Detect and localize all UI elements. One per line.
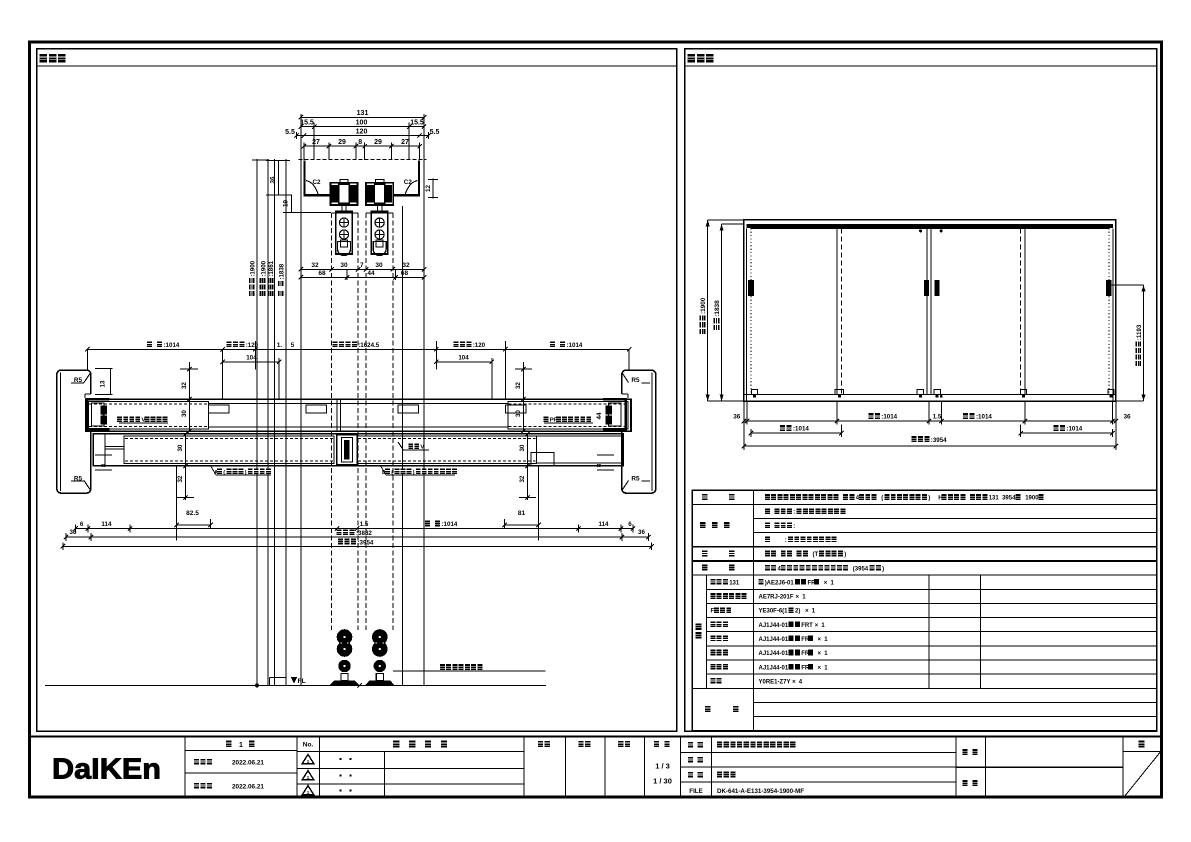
svg-text:1.: 1. [277, 342, 282, 349]
right plan dim stack 32/30 [523, 362, 525, 431]
floor guide roller cluster at x=379.8 [373, 630, 388, 645]
elevation handle door4 [1106, 280, 1112, 296]
elevation right jamb inner line [1112, 228, 1114, 401]
svg-text:15.5: 15.5 [410, 119, 424, 126]
dim 8 rotated at left jamb [101, 463, 108, 467]
svg-text:5.5: 5.5 [430, 129, 440, 136]
spec row keishiki label [702, 494, 707, 500]
svg-text:2022.06.21: 2022.06.21 [232, 760, 264, 767]
svg-text:6: 6 [628, 521, 632, 528]
elevation center meeting stiles [926, 228, 928, 394]
rear band inner face lines [209, 403, 508, 405]
rear band right hatched end cap [508, 402, 628, 429]
dai-1-han block header [185, 749, 297, 751]
elevation door top line [751, 227, 1109, 229]
rear band left hatched end cap [89, 402, 209, 429]
sakusei author column header [618, 741, 623, 747]
svg-text:81: 81 [518, 510, 526, 517]
elevation handle door1 [748, 280, 754, 296]
svg-text:1.5: 1.5 [360, 521, 369, 528]
spec hinban row 6: left door 3 [711, 650, 716, 656]
svg-text:131: 131 [729, 580, 740, 586]
spec hinban row 2: rail set [711, 593, 716, 599]
center coupler (tosaki meeting) [337, 435, 358, 465]
revision triangles and date dots [302, 754, 314, 763]
svg-text:27: 27 [312, 139, 320, 146]
svg-text:44: 44 [101, 412, 108, 419]
svg-text:3954: 3954 [1002, 496, 1016, 502]
flat rail label with leader [393, 670, 546, 672]
svg-text:): ) [844, 552, 846, 558]
dim row 32 30 7 30 32 under hangers [301, 268, 424, 270]
svg-text:32: 32 [402, 262, 410, 269]
hanger roller assembly at x=344.0 [340, 179, 348, 182]
dim row 120 with 5.5 sides [297, 135, 429, 137]
svg-text:32: 32 [177, 475, 184, 482]
svg-text::: : [793, 510, 795, 516]
plan bottom dim row C [76, 528, 633, 530]
front band right hatched door [357, 436, 536, 463]
dim 81 lower right [505, 524, 539, 526]
svg-text:×: × [824, 580, 828, 586]
left panel title separator [37, 65, 677, 67]
svg-text:×: × [818, 651, 822, 657]
svg-text:Y0RE1-Z7Y: Y0RE1-Z7Y [759, 679, 791, 685]
svg-text:(T: (T [813, 552, 819, 558]
fixed frame inner vertical (right) [401, 206, 403, 685]
zuin drafter label [962, 780, 967, 786]
dim 44 rotated at left jamb [101, 412, 108, 419]
elevation dim hikite height 1193 right [1143, 285, 1145, 401]
svg-text:2022.06.21: 2022.06.21 [232, 784, 264, 791]
svg-text:(3954: (3954 [853, 566, 869, 572]
right viewport panel (front elevation view) [685, 49, 1157, 732]
zumei value sanmenzu [717, 772, 722, 778]
svg-text:1: 1 [239, 742, 243, 749]
left plan dim stack 32/30 [189, 362, 191, 431]
svg-text:5.5: 5.5 [285, 129, 295, 136]
svg-text:7: 7 [360, 262, 364, 269]
svg-text::3954: :3954 [358, 539, 374, 546]
door 2 section dashed edges [365, 213, 367, 630]
svg-text:36: 36 [1123, 413, 1131, 420]
dim 12 right of rail [432, 179, 434, 199]
rail channel walls [303, 161, 305, 197]
spec shiage value row2 [765, 523, 770, 529]
elevation bottom center dots [920, 395, 922, 397]
floor dim end dot [255, 684, 258, 687]
kaitei-bi date row [194, 783, 199, 789]
floor line center slash tick [357, 683, 361, 687]
elevation panel divider door1 edge dashed [841, 228, 843, 394]
label tosaki-V with leader [408, 443, 413, 449]
label tsuri-PP tojiri cap (right) [544, 416, 549, 422]
svg-text::1014: :1014 [881, 414, 897, 421]
svg-text:36: 36 [270, 176, 277, 184]
elevation door bottom line [745, 393, 1116, 395]
svg-text:YE30F-6(1: YE30F-6(1 [759, 609, 789, 615]
kenmei project name label [962, 749, 967, 755]
svg-text:44: 44 [367, 270, 375, 277]
upper rail housing outline [299, 159, 427, 161]
svg-text:C2: C2 [404, 179, 413, 186]
dim 8 rotated at right jamb [596, 463, 603, 467]
svg-text:8: 8 [358, 139, 362, 146]
revision history header [393, 740, 399, 747]
hanger lower catch at x=344.0 [338, 242, 351, 256]
spec table horizontal lines [692, 503, 1156, 505]
rail corner bracket right with C2 label [405, 181, 417, 195]
svg-text:C2: C2 [313, 179, 322, 186]
spec table hinban extra dividers [928, 575, 930, 688]
elevation bottom dim row1 [744, 420, 1116, 422]
meisho value omoiyari kids series [717, 742, 722, 748]
dim 82.5 lower left [177, 524, 211, 526]
revision rows lines [297, 751, 524, 753]
elevation top screws [919, 230, 921, 232]
dim 44 rotated at right jamb [596, 412, 603, 419]
svg-text::1014: :1014 [567, 342, 583, 349]
svg-text:30: 30 [515, 410, 522, 417]
svg-text:AE7RJ-201F: AE7RJ-201F [759, 595, 794, 601]
svg-text:AJ1J44-01: AJ1J44-01 [759, 651, 789, 657]
svg-text:×: × [792, 679, 796, 685]
spec row rail value [765, 565, 770, 571]
plan dim row B 104 right [436, 361, 492, 363]
svg-text:×: × [796, 595, 800, 601]
plan dim row B 104 left [223, 361, 280, 363]
kenmei divider [956, 766, 1123, 768]
svg-text:FILE: FILE [689, 788, 702, 795]
svg-text:×: × [815, 623, 819, 629]
shounin approval column header [538, 741, 543, 747]
svg-text:100: 100 [356, 119, 368, 126]
svg-text:13: 13 [99, 380, 106, 387]
svg-text::1624.5: :1624.5 [358, 342, 380, 349]
elevation handles center doors [924, 280, 929, 296]
svg-text:1.5: 1.5 [933, 413, 942, 420]
svg-text::1014: :1014 [164, 342, 180, 349]
spec hinban row 5: right door 2 [711, 636, 716, 642]
svg-text::1900: :1900 [250, 260, 257, 276]
svg-text:1: 1 [307, 790, 310, 795]
svg-text:27: 27 [401, 139, 409, 146]
svg-text::1193: :1193 [1136, 324, 1143, 340]
plan dim row A line [87, 348, 629, 350]
svg-text::1838: :1838 [714, 300, 721, 317]
height dim line wakugai-daka 1900 [267, 159, 269, 686]
svg-text:12: 12 [425, 184, 432, 192]
svg-text:44: 44 [596, 412, 603, 419]
svg-text:R5: R5 [631, 377, 640, 384]
left jamb door pocket (thick C shape) [86, 398, 89, 431]
hanger roller assembly at x=379.6 [375, 179, 383, 182]
dim row 27 29 8 29 27 [304, 145, 420, 147]
svg-text:×: × [818, 665, 822, 671]
elevation bottom dim row2 [751, 432, 842, 434]
spec rows shiage label [700, 522, 705, 528]
svg-text:AJ1J44-01: AJ1J44-01 [759, 623, 789, 629]
height dim line tobira-daka 1838 [285, 159, 287, 686]
height dim line kaikou-daka 1900 [256, 159, 258, 686]
left plan dim stack 30/32 lower [185, 434, 187, 500]
svg-text::120: :120 [473, 342, 486, 349]
svg-text:): ) [882, 566, 884, 572]
svg-text:30: 30 [375, 262, 383, 269]
elevation bottom guides [835, 390, 844, 395]
page cell header [1139, 740, 1145, 747]
svg-text:30: 30 [340, 262, 348, 269]
dim 19 rail to door top [291, 195, 293, 212]
dim row 15.5 / 100 / 15.5 [301, 126, 424, 128]
svg-text:32: 32 [311, 262, 319, 269]
svg-text::1900: :1900 [700, 297, 707, 314]
dim row 131 over rail [301, 116, 424, 118]
svg-text:AJ1J44-01: AJ1J44-01 [759, 637, 789, 643]
svg-text::1861: :1861 [268, 260, 275, 276]
elevation left jamb inner line [746, 228, 748, 401]
front band right thin section w/ notch [536, 435, 623, 437]
right panel title Sho-men-zu (front view) [688, 54, 695, 63]
front track door band outline [93, 434, 623, 466]
svg-text:32: 32 [181, 382, 188, 389]
svg-text:)AE2J6-01: )AE2J6-01 [765, 580, 795, 586]
spec hinban row 7: left door 4 [711, 664, 716, 670]
page cell diagonal [1123, 752, 1161, 799]
svg-text:30: 30 [177, 444, 184, 451]
svg-text:DK-641-A-E131-3954-1900-MF: DK-641-A-E131-3954-1900-MF [717, 788, 804, 795]
spec shiage value row3 [765, 537, 770, 543]
svg-text::3954: :3954 [931, 437, 947, 444]
height dim line yuukou-daka 1861 [274, 159, 276, 686]
svg-text::: : [793, 524, 795, 530]
svg-text:36: 36 [733, 413, 741, 420]
dim 13 at left jamb [110, 368, 112, 394]
spec row totte label [702, 550, 707, 556]
plan bottom dim row E wakugai 3954 [63, 545, 652, 547]
svg-text:68: 68 [318, 270, 326, 277]
svg-text:FL: FL [298, 678, 306, 685]
right frame jamb profile [622, 370, 656, 493]
spec row bikou label [705, 706, 710, 712]
plan dim texts row A [147, 341, 152, 347]
svg-text:(: ( [881, 496, 883, 502]
dim row 68 44 68 [301, 276, 424, 278]
svg-text:114: 114 [599, 521, 610, 528]
elevation dim wakugai-daka 1900 left [707, 220, 709, 401]
rear track door band outline [86, 399, 631, 431]
svg-text:5: 5 [291, 342, 295, 349]
rail corner bracket left with C2 label [306, 181, 318, 195]
spec hinban row 1: kotei-waku131 [711, 579, 716, 585]
seitei-bi date row [185, 772, 297, 774]
spec shiage value row1 [765, 508, 770, 514]
spec row keishiki value [765, 494, 770, 500]
right plan dim stack 30/32 lower [527, 434, 529, 500]
svg-text::3882: :3882 [356, 530, 372, 537]
svg-text::1014: :1014 [976, 414, 992, 421]
floor guide roller cluster at x=344.5 [337, 630, 352, 645]
FL floor level mark [291, 677, 297, 683]
svg-text::: : [785, 538, 787, 544]
svg-text:29: 29 [374, 139, 382, 146]
elevation panel divider door2 edge solid [836, 228, 838, 394]
door 1 section dashed edges [331, 213, 333, 630]
left frame jamb profile [57, 370, 91, 493]
svg-text:6: 6 [80, 521, 84, 528]
spec hinban vertical label [696, 623, 702, 630]
svg-text:1 / 3: 1 / 3 [655, 762, 670, 771]
rear band handle recess notches [209, 405, 230, 413]
front band left stile lines [104, 434, 106, 466]
svg-text:36: 36 [70, 529, 77, 536]
dim 36 rail height [278, 160, 280, 195]
svg-text:32: 32 [515, 382, 522, 389]
svg-text:1: 1 [307, 759, 310, 764]
elevation dim tobira-daka 1838 [721, 224, 723, 401]
spec row totte value [765, 551, 770, 557]
title block vertical dividers [184, 737, 186, 799]
svg-text:131: 131 [989, 496, 1000, 502]
svg-text::120: :120 [246, 342, 259, 349]
svg-text:DaIKEn: DaIKEn [52, 754, 161, 786]
plan bottom dim row D with 36 and wakuuchi 3882 [66, 536, 649, 538]
elevation panel divider door3 edge solid [1024, 228, 1026, 394]
svg-text:104: 104 [458, 355, 469, 362]
svg-text::1838: :1838 [278, 263, 285, 279]
meisho name rows [681, 751, 956, 753]
spec hinban row 4: right door 1 [711, 621, 716, 627]
svg-text:No.: No. [303, 742, 314, 749]
svg-text::1900: :1900 [260, 260, 267, 276]
svg-text:29: 29 [338, 139, 346, 146]
right panel title separator [685, 65, 1157, 67]
svg-text::1014: :1014 [442, 521, 458, 528]
spec row rail label [702, 565, 707, 571]
svg-text:1 / 30: 1 / 30 [653, 777, 672, 786]
svg-text:36: 36 [638, 529, 645, 536]
svg-text::1014: :1014 [793, 426, 809, 433]
rail channel bottom flanges [304, 194, 331, 196]
elevation bottom dim row3 wakugai 3954 [744, 445, 1116, 447]
spec table outer box [692, 490, 1156, 730]
svg-text:2): 2) [795, 609, 800, 615]
kakunin check column header [578, 741, 583, 747]
elevation outer frame [744, 220, 1116, 401]
svg-text:114: 114 [101, 521, 112, 528]
svg-text:AJ1J44-01: AJ1J44-01 [759, 665, 789, 671]
left panel title Dan-men-zu (cross section) [40, 54, 47, 63]
spec table label column line [753, 490, 755, 730]
svg-text::1014: :1014 [1066, 426, 1082, 433]
svg-text:1: 1 [307, 775, 310, 780]
spec table hinban sub column [706, 575, 708, 688]
svg-text:30: 30 [181, 410, 188, 417]
elevation panel divider door4 edge dashed [1020, 228, 1022, 394]
spec hinban row 8: hikite [711, 678, 716, 684]
left viewport panel (cross-section view) [37, 49, 677, 732]
hanger lower catch at x=379.6 [373, 242, 386, 256]
svg-text:104: 104 [246, 355, 257, 362]
svg-text:FRT: FRT [801, 623, 813, 629]
svg-text:82.5: 82.5 [186, 510, 199, 517]
svg-text:120: 120 [356, 128, 368, 135]
label hikido-tojiri V cap (left) [117, 416, 122, 422]
svg-text:×: × [818, 637, 822, 643]
title block top border [30, 735, 1162, 737]
front band left hatched door [124, 436, 334, 463]
svg-text:131: 131 [357, 110, 369, 117]
right jamb door pocket [624, 398, 627, 431]
svg-text:): ) [928, 496, 930, 502]
svg-text:32: 32 [519, 475, 526, 482]
elevation top rail thick band [747, 224, 1114, 228]
svg-text:1900: 1900 [1025, 496, 1039, 502]
svg-text:30: 30 [519, 444, 526, 451]
svg-text:R5: R5 [631, 475, 640, 482]
floor line [45, 684, 546, 686]
plan center vertical pair (meeting stiles upper) [336, 399, 338, 431]
svg-text:×: × [805, 609, 809, 615]
revision description sub divider [384, 752, 386, 799]
shukushaku scale column [654, 741, 659, 747]
